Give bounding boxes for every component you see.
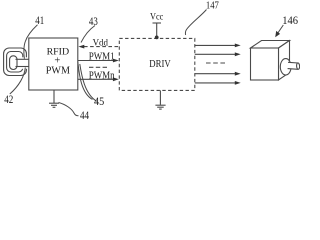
svg-text:42: 42 xyxy=(4,94,13,106)
svg-text:PWM1: PWM1 xyxy=(89,51,115,62)
svg-text:45: 45 xyxy=(94,96,104,108)
svg-text:43: 43 xyxy=(89,16,98,28)
svg-text:PWMn: PWMn xyxy=(89,70,116,81)
svg-text:DRIV: DRIV xyxy=(149,58,170,70)
svg-text:146: 146 xyxy=(282,13,298,27)
svg-text:44: 44 xyxy=(80,110,89,120)
svg-text:Vcc: Vcc xyxy=(150,13,163,23)
svg-text:Vdd: Vdd xyxy=(93,39,109,49)
svg-text:41: 41 xyxy=(35,15,44,27)
svg-text:147: 147 xyxy=(206,0,219,12)
svg-text:PWM: PWM xyxy=(46,66,70,77)
